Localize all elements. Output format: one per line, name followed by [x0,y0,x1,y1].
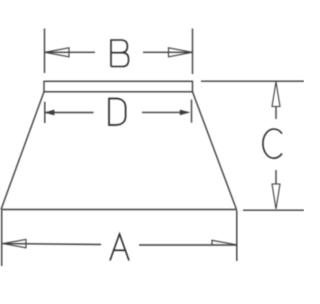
wire: D dimension line left [46,112,94,114]
node D: left solid arrowhead [46,110,55,115]
wire: D dimension line right [142,111,189,113]
node A: label letter A [110,234,129,261]
wire: bottom edge [1,209,237,211]
node D: label letter D [109,99,126,126]
node A: right half arrowhead [212,240,237,245]
node B: right extension line [192,29,194,75]
node A: right extension line [236,210,238,261]
node B: right open arrowhead [169,48,193,57]
wire: left slanted side [1,92,44,210]
node C: down open arrowhead [272,184,280,209]
node C: top extension line [201,80,304,82]
node A: left extension line [1,210,3,266]
node C: bottom extension line [243,209,304,211]
node D: right extension line [191,100,193,123]
node B: left open arrowhead [45,48,69,57]
wire: A dimension line right [139,244,237,246]
node B: left extension line [44,29,46,74]
wire: C dimension line upper stem [275,107,277,120]
part outline: top rim rectangle [44,81,193,92]
wire: C dimension line lower stem [275,170,277,184]
node D: left extension line [44,102,46,123]
node C: up open arrowhead [272,82,280,107]
wire: B dimension line right [143,51,193,53]
node C: label letter C [263,129,282,158]
wire: A dimension line left [3,243,102,246]
node D: right solid arrowhead [180,110,189,115]
wire: right slanted side [193,92,237,210]
node A: left open arrowhead [3,239,26,247]
wire: B dimension line left [45,51,96,53]
node B: label letter B [111,40,129,67]
